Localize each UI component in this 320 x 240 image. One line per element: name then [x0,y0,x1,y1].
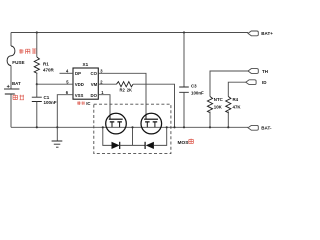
svg-text:VSS: VSS [75,93,84,98]
svg-text:470R: 470R [43,68,55,73]
svg-text:CO: CO [91,71,98,76]
svg-text:R4: R4 [233,97,239,102]
pin 4 DP stub [60,72,74,74]
svg-text:X1: X1 [83,62,89,67]
svg-text:BAT-: BAT- [261,126,272,131]
ground [52,141,63,147]
node junction left diode / rail [102,126,104,128]
wire rail to ground [56,127,58,141]
terminal BAT+ [248,31,258,36]
wire top rail to R1 [36,33,38,58]
node junction R4 / rail [227,126,229,128]
MOSFET block dashed box [94,104,171,153]
node junction VSS / bottom rail [56,126,58,128]
capacitor C1 100nF [32,97,42,101]
transistor Q1 (left MOSFET) [106,113,127,134]
svg-text:ID: ID [262,80,267,85]
svg-text:R1: R1 [43,61,49,66]
resistor NTC 10K [207,97,212,113]
diode D1 [112,142,120,149]
svg-text:R2: R2 [120,87,126,92]
capacitor C3 100nF [179,87,189,92]
label 保险丝 (red) [19,49,36,54]
svg-text:TH: TH [262,69,268,74]
node junction mid tap [131,126,133,128]
terminal BAT- [248,125,258,130]
node junction C1 bottom [36,126,38,128]
wire pin 5 VDD [37,83,73,85]
resistor R2 2K [117,82,134,87]
node junction top of R1 [36,31,38,33]
wire C3 to bottom rail [183,92,185,127]
wire between diodes [120,144,145,146]
svg-text:DO: DO [91,93,98,98]
terminal TH [248,69,258,74]
wire bottom rail B- [11,126,248,128]
wire right diode branch [154,127,167,145]
svg-text:DP: DP [75,71,81,76]
wire VDD node to C1 [36,84,38,97]
wire fuse to battery [10,66,12,89]
svg-text:FUSE: FUSE [12,60,24,65]
svg-text:47K: 47K [233,105,242,110]
node VDD junction [36,83,38,85]
wire top rail B+ [11,32,248,34]
node junction VM / bottom rail [173,126,175,128]
wire mid tap to rail [132,127,134,145]
node junction C3 bottom [183,126,185,128]
wire TH to NTC [210,71,248,97]
IC U1 protection IC X1 [73,68,98,99]
node junction top of C3 [183,31,185,33]
svg-text:10K: 10K [214,105,223,110]
svg-text:VDD: VDD [75,82,84,87]
svg-text:VM: VM [91,82,98,87]
diode D2 [146,142,154,149]
svg-text:NTC: NTC [214,97,224,102]
wire top rail to C3 [183,33,185,88]
label 保护IC (red) [77,101,85,105]
wire C1 to bottom rail [36,102,38,128]
wire body-diode branch left [103,127,112,145]
battery cell BAT short plate [5,93,15,95]
wire NTC to bottom rail [209,112,211,128]
battery cell BAT long plate [4,88,19,90]
wire pin 1 DO to left FET gate [98,95,110,115]
wire pin 6 VSS to ground [57,95,73,128]
svg-text:2K: 2K [127,87,132,92]
wire pin 2 VM left segment [98,83,116,85]
svg-text:C3: C3 [191,84,197,89]
wire R1 to VDD node [36,73,38,84]
transistor Q2 (right MOSFET) [141,113,162,134]
wire pin 3 CO to right FET gate [98,73,146,115]
resistor R1 470R [34,57,39,73]
wire left vertical from top rail to fuse [10,33,12,47]
svg-text:100nF: 100nF [191,90,204,95]
wire ID to R4 [228,82,246,96]
wire battery to bottom rail [10,94,12,127]
svg-text:BAT: BAT [12,81,21,86]
fuse FUSE [7,46,15,66]
label 电芯 (red) [13,95,24,100]
wire VM to pack negative [133,84,175,127]
svg-text:BAT+: BAT+ [261,31,273,36]
resistor R4 47K [226,97,231,113]
node junction right diode / rail [166,126,168,128]
wire R4 to bottom rail [227,112,229,128]
node junction NTC / rail [209,126,211,128]
svg-text:100nF: 100nF [44,100,57,105]
svg-text:IC: IC [86,101,90,106]
svg-text:MOS: MOS [178,140,190,146]
battery plus sign [7,85,10,88]
terminal ID [246,80,256,85]
